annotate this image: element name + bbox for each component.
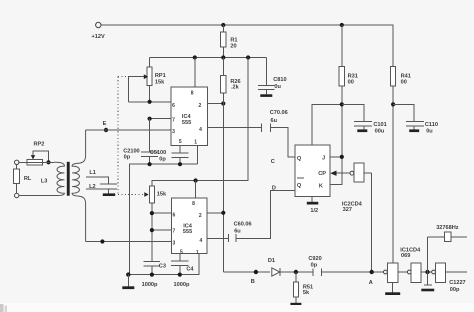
wire Vcc distribution y=57.5 xyxy=(150,57,267,59)
ground under C81 xyxy=(260,94,272,97)
resistor R31 00 xyxy=(330,25,358,184)
wire pin7 lower xyxy=(152,229,172,231)
node A xyxy=(369,270,374,286)
svg-text:555: 555 xyxy=(182,120,191,126)
capacitor C70.06 6u xyxy=(261,110,287,132)
svg-text:C4: C4 xyxy=(186,267,194,273)
inverter gate 2 xyxy=(407,263,431,283)
op point: IC4 555 lower timer xyxy=(172,198,207,256)
svg-text:C920: C920 xyxy=(308,256,321,262)
svg-text:20: 20 xyxy=(230,43,236,49)
node junction crystal tie xyxy=(425,270,429,274)
resistor R51 5k xyxy=(293,272,313,303)
transformer core xyxy=(67,162,70,196)
wire pin6 lower xyxy=(152,212,172,214)
svg-text:A: A xyxy=(369,280,373,286)
node junction rail-R31 xyxy=(340,23,344,27)
node junction column to lower timer xyxy=(246,55,250,59)
svg-text:Q: Q xyxy=(297,156,302,162)
svg-text:C810: C810 xyxy=(273,77,286,83)
wire pin8 upper stem xyxy=(194,58,196,88)
svg-text:.2k: .2k xyxy=(231,85,240,91)
label C1227 00p xyxy=(449,280,465,293)
clock arrowhead into CP xyxy=(330,171,336,176)
potentiometer 15k lower xyxy=(149,186,167,261)
capacitor C60.06 6u xyxy=(228,222,251,243)
terminal lower input xyxy=(15,193,19,197)
node junction pin7 lower xyxy=(150,228,154,232)
svg-text:C5100: C5100 xyxy=(150,150,166,156)
svg-text:J: J xyxy=(322,155,325,161)
svg-text:6: 6 xyxy=(173,212,176,218)
label IC2CD4 327 xyxy=(342,202,363,213)
svg-text:4: 4 xyxy=(199,127,202,133)
svg-text:0p: 0p xyxy=(159,156,166,162)
svg-text:00u: 00u xyxy=(375,128,385,134)
svg-text:5: 5 xyxy=(180,249,183,255)
svg-text:L1: L1 xyxy=(89,170,96,176)
wire C7 to node C / Q xyxy=(271,128,296,157)
node junction R31 bottom xyxy=(340,102,344,106)
node junction R1 bottom xyxy=(221,55,225,59)
svg-text:00p: 00p xyxy=(450,287,460,293)
node junction ground tie xyxy=(126,272,130,276)
node junction pin2 lower xyxy=(221,211,225,215)
node junction RP2 wiper tie xyxy=(46,160,50,164)
wire pin2 lower to divider column xyxy=(207,212,223,214)
svg-text:7: 7 xyxy=(172,117,175,123)
resistor R26 .2k xyxy=(221,76,241,94)
svg-text:C: C xyxy=(271,159,275,165)
capacitor C4 1000p xyxy=(171,254,194,289)
node junction C4 bottom xyxy=(178,273,182,277)
label IC1CD4 069 xyxy=(400,248,421,259)
capacitor C920 0p xyxy=(308,256,383,276)
svg-text:8: 8 xyxy=(192,201,195,207)
wire CP to buffer xyxy=(337,172,351,174)
diode D1 xyxy=(268,258,313,276)
node junction pot-pin6 lower xyxy=(150,211,154,215)
node junction C3 bottom xyxy=(150,273,154,277)
svg-text:6: 6 xyxy=(172,103,175,109)
wire pin7 of IC4 upper xyxy=(150,118,171,120)
node junction pin8 lower stem xyxy=(194,178,198,182)
svg-text:Q: Q xyxy=(297,183,302,189)
node junction pin7 xyxy=(148,117,152,121)
inductor secondary winding xyxy=(72,130,86,242)
wire pin4 upper to C7 xyxy=(208,127,262,129)
wire pin1 upper stem xyxy=(196,145,198,164)
node E xyxy=(103,121,109,132)
svg-text:E: E xyxy=(103,121,107,127)
svg-text:B: B xyxy=(251,279,255,285)
wire C6 to node D / Qbar xyxy=(236,191,295,239)
svg-text:RL: RL xyxy=(24,176,32,182)
corner watermark mark xyxy=(0,304,7,312)
wire flip-flop Vdd stem xyxy=(312,104,342,145)
node junction on pin3 wire xyxy=(100,239,104,243)
+12V supply terminal xyxy=(92,22,105,40)
node junction R51 top xyxy=(294,270,298,274)
node junction J-K tie xyxy=(340,155,344,159)
wire pin8 lower stem xyxy=(195,181,197,198)
svg-text:C1227: C1227 xyxy=(449,280,465,286)
svg-text:327: 327 xyxy=(343,207,352,213)
resistor R1 xyxy=(221,25,238,58)
wire +12V top rail xyxy=(101,24,394,26)
svg-text:C101: C101 xyxy=(373,122,386,128)
capacitor C110 0u xyxy=(393,104,438,134)
buffer gate on clock line xyxy=(350,163,372,182)
capacitor load on crystal node xyxy=(421,272,434,291)
node junction C210 bottom xyxy=(148,162,152,166)
capacitor C81 00u xyxy=(258,58,287,95)
ground flip-flop xyxy=(307,197,319,215)
ground bottom left xyxy=(122,275,134,289)
wiper arm RP1 xyxy=(129,74,149,102)
svg-text:2: 2 xyxy=(199,103,202,109)
svg-text:2: 2 xyxy=(199,213,202,219)
svg-text:L2: L2 xyxy=(89,184,96,190)
node junction rail-R1 xyxy=(221,23,225,27)
wire node A column xyxy=(371,173,373,272)
svg-text:0u: 0u xyxy=(274,84,281,90)
resistor RL xyxy=(14,165,32,194)
capacitor C101 00u xyxy=(342,104,387,134)
wire timing net y=164.2 xyxy=(129,164,197,274)
svg-text:C110: C110 xyxy=(425,122,438,128)
svg-text:00: 00 xyxy=(348,80,354,86)
node junction C510 bottom xyxy=(178,162,182,166)
wire pin6 of IC4 upper xyxy=(129,101,172,103)
inverter gate 1 xyxy=(384,263,408,283)
svg-text:CP: CP xyxy=(318,171,326,177)
svg-text:4: 4 xyxy=(200,238,203,244)
wire pin4 lower to C6 xyxy=(207,237,228,239)
svg-text:555: 555 xyxy=(183,229,192,235)
svg-text:6u: 6u xyxy=(271,118,278,124)
svg-text:0p: 0p xyxy=(124,155,131,161)
node junction pin2-R26 xyxy=(221,101,225,105)
svg-text:7: 7 xyxy=(173,229,176,235)
capacitor C3 1000p xyxy=(142,261,166,288)
ground under C101 xyxy=(357,129,367,132)
ground under L2 capacitor xyxy=(103,193,115,196)
svg-text:RP2: RP2 xyxy=(34,141,45,147)
svg-text:+12V: +12V xyxy=(92,34,105,40)
svg-text:C60.06: C60.06 xyxy=(234,222,252,228)
op point: IC4 555 upper timer xyxy=(171,87,208,146)
svg-text:3: 3 xyxy=(172,129,175,135)
svg-text:069: 069 xyxy=(401,253,410,259)
wire Vcc column to lower timer xyxy=(152,58,248,187)
resistor R41 00 xyxy=(391,25,411,263)
wire pin7 column down to C210 xyxy=(149,119,151,152)
svg-text:8: 8 xyxy=(191,90,194,96)
flip-flop U IC2 CD4027 xyxy=(295,145,330,196)
wire pin2 upper to divider xyxy=(208,103,224,105)
svg-text:5: 5 xyxy=(179,139,182,145)
dashed gang link vertical xyxy=(117,77,119,195)
svg-text:15k: 15k xyxy=(155,79,165,85)
svg-text:IC4: IC4 xyxy=(182,114,192,120)
svg-text:0u: 0u xyxy=(426,128,433,134)
ground under inverter 1 xyxy=(385,283,400,295)
inductor L3 transformer primary xyxy=(19,162,65,195)
ground under R51 xyxy=(290,303,301,305)
potentiometer RP2 xyxy=(15,141,55,165)
crystal 32768Hz xyxy=(428,225,468,272)
capacitor C5100 0p xyxy=(150,150,189,164)
dashed gang link to lower pot wiper xyxy=(118,192,149,197)
wire bottom output line xyxy=(223,271,269,273)
svg-text:1: 1 xyxy=(196,250,199,256)
wire bottom timing net xyxy=(128,254,199,275)
svg-text:RP1: RP1 xyxy=(155,73,166,79)
wire secondary lower to pin3 lower timer xyxy=(86,241,172,243)
capacitor C2100 0p xyxy=(123,149,158,165)
potentiometer RP1 15k xyxy=(147,58,166,102)
ground under C110 xyxy=(409,129,419,132)
wire pin5 upper stem xyxy=(179,145,181,153)
node L1 tap xyxy=(86,170,109,177)
wire node E to pin3 upper timer xyxy=(86,129,171,131)
node junction R41 bottom xyxy=(391,102,395,106)
svg-text:3: 3 xyxy=(173,241,176,247)
svg-text:6u: 6u xyxy=(234,229,241,235)
svg-text:00: 00 xyxy=(401,80,407,86)
inverter gate 3 xyxy=(432,263,467,283)
svg-text:32768Hz: 32768Hz xyxy=(436,225,459,231)
wire R26 column xyxy=(222,58,224,273)
node B xyxy=(251,270,258,285)
svg-text:15k: 15k xyxy=(157,192,167,198)
svg-text:K: K xyxy=(319,184,323,190)
svg-text:1000p: 1000p xyxy=(174,282,190,288)
capacitor across L2 xyxy=(86,177,117,193)
svg-text:5k: 5k xyxy=(303,290,310,296)
node junction pin8 column xyxy=(193,55,197,59)
dashed gang link to RP1 wiper xyxy=(118,76,129,78)
svg-text:1/2: 1/2 xyxy=(310,208,318,214)
svg-text:D1: D1 xyxy=(268,258,275,264)
svg-text:1: 1 xyxy=(194,140,197,146)
svg-text:D: D xyxy=(272,186,276,192)
wire J tie xyxy=(330,156,342,158)
wiper arm RP2 xyxy=(31,151,49,163)
node junction RP1-pin6 xyxy=(148,100,152,104)
svg-text:C70.06: C70.06 xyxy=(270,110,288,116)
svg-text:C3: C3 xyxy=(159,263,166,269)
svg-text:L3: L3 xyxy=(41,178,48,184)
svg-text:1000p: 1000p xyxy=(142,282,158,288)
svg-text:0p: 0p xyxy=(311,263,318,269)
